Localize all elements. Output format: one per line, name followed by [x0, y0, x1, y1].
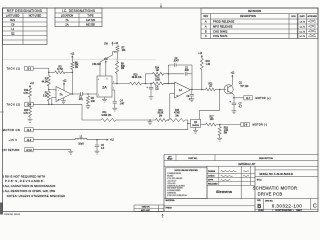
svg-text:.047: .047	[120, 103, 125, 105]
svg-text:-: -	[177, 85, 178, 88]
long divider rail from TACH(2)	[81, 104, 83, 120]
svg-text:1%: 1%	[121, 68, 124, 70]
feedback resistor R5 47.5K	[48, 72, 50, 74]
power +12 for R19	[29, 86, 31, 88]
svg-text:MFG RELEASE: MFG RELEASE	[213, 25, 233, 29]
svg-text:J2-7: J2-7	[246, 98, 251, 100]
resistor R10 49.9K 1%	[130, 82, 142, 85]
svg-text:TYPE: TYPE	[87, 15, 94, 18]
svg-text:6.30322-100: 6.30322-100	[272, 203, 303, 208]
scan crease artifact	[3, 58, 156, 61]
svg-text:A: A	[205, 25, 207, 29]
connector J2-7 MOTOR (+)	[234, 97, 244, 99]
svg-text:Q2: Q2	[11, 32, 15, 36]
svg-text:REF DESIGNATIONS: REF DESIGNATIONS	[7, 9, 42, 13]
svg-text:P C B ' S , R E V S A AND: P C B ' S , R E V S A AND B .	[5, 179, 45, 183]
material list header row	[164, 154, 318, 156]
ground below R18	[219, 136, 221, 139]
wire Q2 to R17	[201, 124, 206, 126]
feedback network of 1A: C3 .0047	[167, 65, 169, 84]
svg-text:1%: 1%	[159, 115, 162, 117]
svg-text:2 ALL CAPACITORS IN MICROFARA: 2 ALL CAPACITORS IN MICROFARADS	[2, 184, 55, 188]
svg-text:DRIVE PCB: DRIVE PCB	[258, 192, 283, 197]
svg-text:4.7K: 4.7K	[23, 113, 28, 115]
svg-text:B: B	[205, 29, 207, 33]
ground at Q2 emitter	[195, 127, 197, 130]
wire pot to R9	[116, 53, 119, 62]
svg-text:7: 7	[113, 88, 114, 90]
svg-text:-: -	[58, 89, 59, 92]
inductor L1 10uH	[75, 138, 87, 140]
svg-text:USED ON: USED ON	[142, 207, 150, 209]
svg-text:NEXT ASSY: NEXT ASSY	[141, 209, 151, 212]
svg-text:REV: REV	[203, 16, 208, 18]
resistor R2 44.2K	[48, 68, 50, 75]
svg-text:.039: .039	[184, 70, 189, 72]
ground below C9	[189, 99, 194, 102]
power +12 via R16	[201, 56, 203, 58]
resistor R21 10	[206, 88, 216, 91]
size and drawing number row	[255, 198, 318, 200]
svg-text:4-1-76: 4-1-76	[299, 27, 304, 29]
wire R4 to 7A output	[71, 69, 73, 94]
capacitor C5 3.3	[96, 140, 98, 145]
svg-text:FORM NO. 100-02: FORM NO. 100-02	[4, 214, 20, 216]
svg-text:DRAWN: DRAWN	[208, 170, 216, 173]
svg-text:DWG NO.: DWG NO.	[265, 200, 274, 202]
op-amp U1A	[175, 82, 191, 98]
svg-text:R21: R21	[10, 18, 15, 22]
svg-text:REVISIONS: REVISIONS	[248, 10, 262, 13]
ground at 7A	[63, 98, 65, 101]
svg-text:2A: 2A	[102, 85, 107, 89]
power +12 at Q1 collector	[231, 76, 233, 85]
svg-text:PROD RELEASE: PROD RELEASE	[213, 20, 234, 24]
bottom edge zone tick	[162, 214, 164, 218]
transistor Q2 2N4123	[191, 119, 201, 127]
svg-text:2A: 2A	[65, 23, 68, 27]
svg-text:9-7-76: 9-7-76	[299, 36, 304, 38]
wire MOTOR ON to Q2 base	[33, 129, 188, 131]
svg-text:CHECK: CHECK	[208, 175, 215, 177]
top edge zone tick	[160, 4, 162, 8]
signature block	[206, 166, 208, 198]
wire 7A output to IC 2A	[71, 93, 81, 95]
wire from J2-3	[33, 67, 49, 69]
wire 1A non-inverting input	[170, 93, 175, 95]
svg-text:J2-4: J2-4	[27, 104, 32, 106]
svg-text:J2-8: J2-8	[243, 125, 248, 127]
svg-text:1A: 1A	[179, 88, 182, 92]
svg-text:Siemens: Siemens	[216, 189, 233, 194]
handwritten approval entry	[308, 26, 316, 27]
svg-text:DESCRIPTION: DESCRIPTION	[240, 16, 256, 18]
handwritten approval entry	[308, 30, 316, 33]
svg-text:C9: C9	[11, 23, 15, 27]
ground below R8	[87, 104, 89, 106]
power +12 arrow from L1	[107, 139, 109, 141]
svg-text:MOTOR (+): MOTOR (+)	[256, 97, 271, 100]
wire Q1 base node to Q2 collector	[219, 89, 221, 110]
svg-text:TACH (2): TACH (2)	[7, 103, 21, 107]
power +12 via R4	[71, 57, 73, 63]
wire TACH(2) rail	[33, 103, 82, 105]
svg-text:NOT USED: NOT USED	[29, 15, 42, 18]
svg-text:NE 555: NE 555	[86, 23, 95, 27]
svg-text:20K: 20K	[91, 101, 96, 103]
svg-text:10K: 10K	[122, 50, 127, 52]
svg-text:SIZE: SIZE	[257, 200, 260, 202]
capacitor C9 .1	[191, 90, 193, 94]
power +12 at IC 2A pin	[105, 61, 107, 64]
svg-text:LM 723: LM 723	[86, 18, 95, 22]
svg-text:ECN: ECN	[292, 16, 297, 18]
table I.C. DESIGNATIONS	[55, 8, 102, 27]
svg-text:3 R8 IS NOT REQUIRED WITH: 3 R8 IS NOT REQUIRED WITH	[2, 174, 45, 178]
material list bar	[164, 165, 318, 167]
capacitor C7 4.7 (polarized)	[233, 98, 235, 103]
svg-text:49.9K 1%: 49.9K 1%	[132, 77, 142, 79]
svg-text:15V RETURN: 15V RETURN	[2, 149, 19, 152]
connector J2-8 MOTOR (-)	[241, 122, 250, 126]
resistor R9 50K 1%	[116, 62, 119, 74]
svg-text:44.2K: 44.2K	[42, 81, 48, 83]
appr signature	[221, 179, 231, 182]
svg-text:MOTOR (-): MOTOR (-)	[253, 124, 268, 127]
svg-text:SHEET: SHEET	[296, 210, 302, 212]
drawn date entry	[243, 170, 249, 173]
table REVISIONS	[201, 8, 318, 39]
capacitor C4 .047	[114, 90, 116, 101]
svg-text:TITLE: TITLE	[257, 179, 263, 181]
svg-text:3: 3	[113, 82, 114, 84]
handwritten approval entry	[308, 21, 316, 22]
svg-text:TIP 120: TIP 120	[240, 86, 249, 88]
resistor R12 100K	[153, 82, 164, 85]
svg-text:1%: 1%	[175, 115, 178, 117]
svg-text:J2-9: J2-9	[27, 140, 32, 142]
svg-text:MATERIAL LIST: MATERIAL LIST	[239, 163, 257, 166]
svg-text:.XX ±.02 ±1°: .XX ±.02 ±1°	[167, 180, 176, 182]
ground below C5	[95, 151, 100, 154]
svg-text:.XXX ±.010: .XXX ±.010	[167, 183, 175, 185]
svg-text:4.7K: 4.7K	[23, 93, 28, 95]
svg-text:CW ADJ: CW ADJ	[92, 63, 100, 66]
scale strip	[255, 208, 318, 210]
svg-text:SCHEMATIC MOTOR: SCHEMATIC MOTOR	[253, 186, 297, 191]
svg-text:2N4123: 2N4123	[192, 125, 199, 127]
svg-text:DATE: DATE	[300, 15, 306, 18]
svg-text:9.09K 1%: 9.09K 1%	[102, 115, 112, 117]
svg-text:SCALE: SCALE	[258, 209, 264, 212]
check signature	[221, 175, 233, 178]
ground below IC 2A	[102, 99, 107, 102]
wire to 7A non-inverting input	[51, 97, 53, 104]
svg-text:RELEASED: RELEASED	[208, 183, 218, 186]
svg-text:DESCRIPTION: DESCRIPTION	[259, 158, 273, 160]
capacitor C2 .039	[185, 72, 187, 76]
svg-text:MOTOR ON: MOTOR ON	[3, 128, 20, 132]
resistor R11 9.09K 1%	[82, 119, 101, 121]
svg-text:100K: 100K	[155, 79, 161, 81]
svg-text:10uH: 10uH	[78, 144, 84, 146]
resistor R20 4.7K	[29, 104, 31, 107]
ground below C6	[149, 97, 154, 100]
resistor R16 1.4K	[200, 58, 203, 69]
resistor R1 5.1K	[47, 92, 50, 102]
model number row	[255, 169, 318, 171]
svg-text:1M: 1M	[156, 70, 159, 72]
wire 1A inverting input	[164, 83, 175, 85]
drawn signature	[221, 171, 237, 172]
wire 1A output rail	[191, 88, 206, 90]
resistor R17 100	[206, 123, 217, 126]
resistor R13 90.9K 1%	[156, 119, 167, 122]
svg-text:7A: 7A	[59, 92, 62, 96]
resistor R19 4.7K	[29, 88, 32, 97]
pot wiper arrow	[114, 51, 116, 53]
svg-text:LAST USED: LAST USED	[6, 15, 20, 18]
svg-text:FINISH: FINISH	[166, 207, 173, 209]
table REF DESIGNATIONS	[3, 8, 48, 45]
svg-text:J2-5: J2-5	[27, 130, 32, 132]
ground below C4	[112, 108, 117, 111]
svg-text:J2-3: J2-3	[27, 68, 32, 70]
svg-text:MATERIAL: MATERIAL	[166, 199, 175, 202]
resistor R18 1.5 5W	[219, 125, 221, 127]
svg-text:1-9-76: 1-9-76	[299, 22, 304, 24]
resistor R15 47.4K 1%	[170, 119, 186, 122]
scan smudge bottom-left	[0, 203, 3, 215]
svg-text:CHG 50474: CHG 50474	[213, 34, 228, 38]
Q1 emitter node	[232, 94, 234, 96]
application block NEXT ASSY	[134, 205, 164, 212]
svg-text:TACH (1): TACH (1)	[7, 66, 21, 70]
svg-text:C: C	[313, 204, 317, 210]
svg-text:.001: .001	[78, 99, 83, 101]
op-amp U7A	[56, 87, 71, 102]
svg-text:C: C	[205, 34, 207, 38]
svg-text:REQD: REQD	[167, 159, 173, 161]
ground below C7	[232, 111, 237, 114]
svg-text:I.C. DESIGNATIONS: I.C. DESIGNATIONS	[62, 9, 95, 13]
svg-text:1%: 1%	[75, 67, 78, 69]
svg-text:1.4K: 1.4K	[206, 64, 211, 66]
svg-text:5.1K: 5.1K	[43, 95, 48, 97]
svg-text:+15 V: +15 V	[9, 138, 18, 142]
check date entry	[243, 175, 249, 178]
svg-text:CHG 50462: CHG 50462	[213, 29, 228, 33]
svg-text:1: 1	[98, 95, 99, 97]
svg-text:PART NO.: PART NO.	[188, 157, 198, 160]
svg-text:1 ALL RESISTORS IN OHMS, ¼W,: 1 ALL RESISTORS IN OHMS, ¼W, ±5%	[2, 189, 55, 193]
svg-text:LOCATION: LOCATION	[61, 15, 73, 18]
left edge zone tick	[0, 111, 4, 113]
feedback resistor R14 1M	[168, 73, 170, 75]
svg-text:1 DIMENSIONS IN: 1 DIMENSIONS IN	[167, 173, 181, 175]
notes-unless-specified box	[165, 168, 207, 199]
series capacitor C1 .001	[81, 92, 83, 96]
svg-text:A: A	[205, 20, 207, 24]
transistor Q1 TIP 120	[224, 85, 233, 94]
svg-text:MODEL NO. F-39-00-B/200-B: MODEL NO. F-39-00-B/200-B	[259, 173, 293, 176]
resistor R8 20K	[87, 96, 90, 104]
svg-text:NOTES: UNLESS OTHERWISE SPECIF: NOTES: UNLESS OTHERWISE SPECIFIED	[7, 194, 66, 198]
timer IC 2A (NE 555)	[97, 76, 112, 97]
capacitor C6 1.0 (polarized)	[150, 83, 152, 85]
svg-text:4: 4	[98, 79, 99, 81]
ground tap on rail	[149, 119, 151, 121]
handwritten approval entry	[308, 36, 316, 37]
svg-text:8: 8	[107, 79, 108, 81]
svg-text:6-1-76: 6-1-76	[299, 31, 304, 33]
svg-text:47.5K: 47.5K	[57, 69, 63, 71]
pin stubs IC 2A	[112, 83, 130, 85]
svg-text:NOTES UNLESS SPECIFIED: NOTES UNLESS SPECIFIED	[175, 170, 199, 172]
svg-text:.0047: .0047	[173, 60, 179, 62]
node at 7A inverting input	[48, 86, 50, 92]
svg-text:INCHES: INCHES	[167, 175, 173, 177]
wire feedback to 1A output	[191, 65, 193, 89]
svg-text:J2-10: J2-10	[26, 150, 32, 152]
svg-text:7A: 7A	[65, 18, 68, 22]
ground below R20	[29, 117, 31, 120]
svg-text:APPROVED: APPROVED	[308, 15, 318, 18]
svg-text:APPR: APPR	[208, 179, 214, 182]
resistor R4 50K 1%	[71, 62, 74, 69]
ground at 15V return	[70, 150, 72, 152]
material and finish rows	[164, 198, 255, 200]
